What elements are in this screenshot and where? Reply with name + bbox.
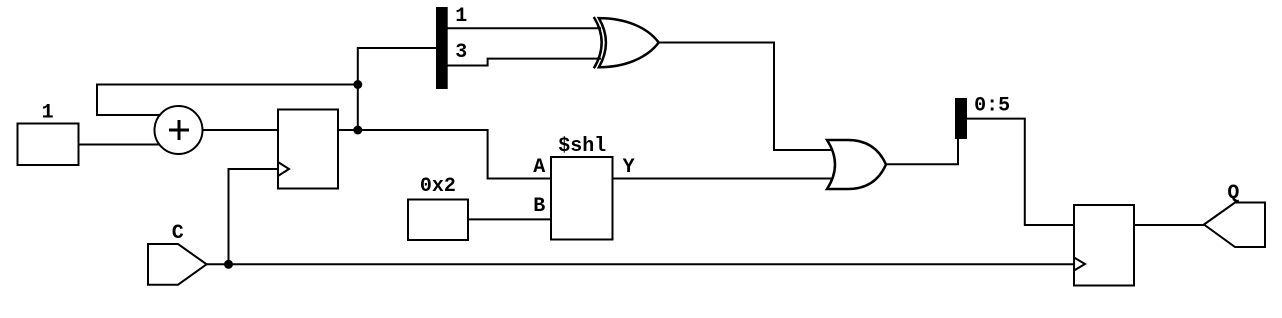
svg-text:Y: Y: [623, 156, 635, 179]
svg-text:Q: Q: [1227, 182, 1239, 205]
svg-text:1: 1: [455, 5, 467, 28]
svg-text:A: A: [533, 156, 545, 179]
svg-text:3: 3: [455, 41, 467, 64]
svg-text:B: B: [533, 195, 545, 218]
svg-text:C: C: [172, 222, 184, 245]
svg-text:0:5: 0:5: [974, 95, 1010, 118]
svg-text:1: 1: [42, 101, 54, 124]
svg-text:0x2: 0x2: [420, 175, 456, 198]
svg-text:$shl: $shl: [558, 135, 606, 158]
